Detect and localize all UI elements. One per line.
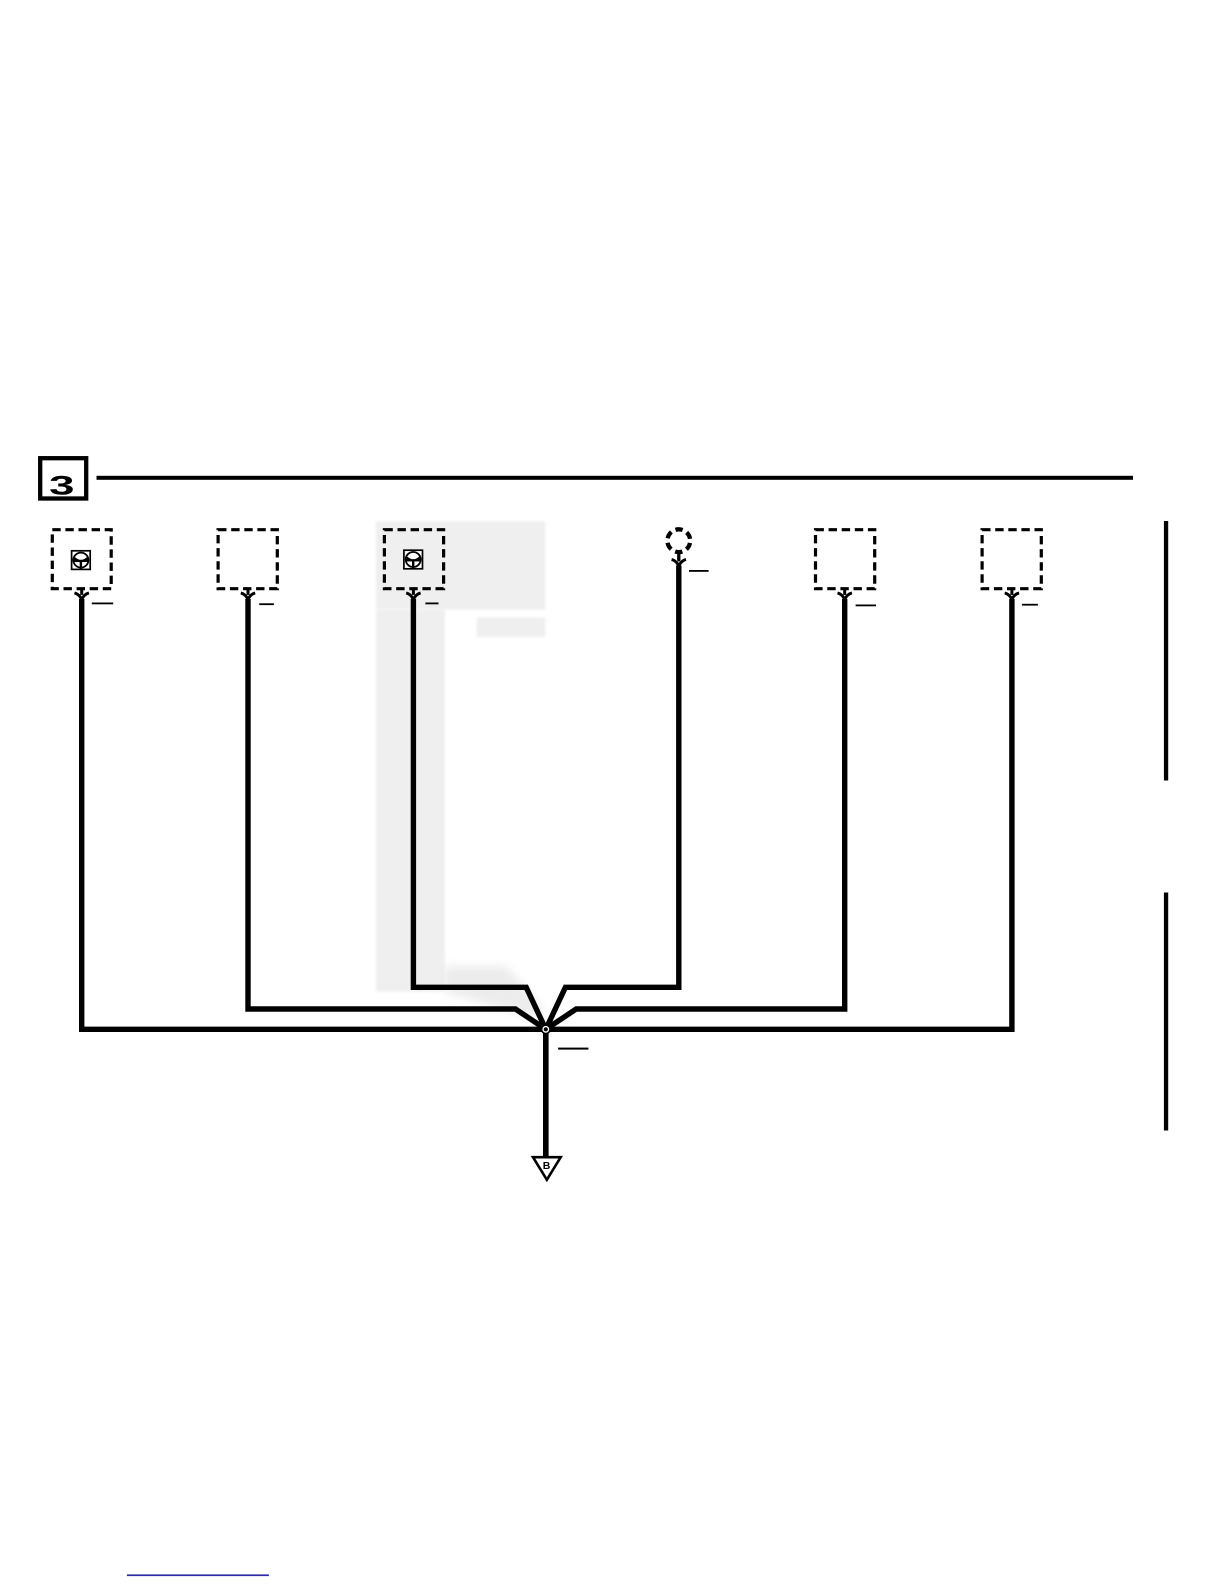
label dash L6 <box>1022 604 1038 606</box>
connector X6 dashed box <box>982 530 1041 589</box>
wire W2 stub arrow <box>241 590 255 600</box>
label dash L4 <box>689 570 709 572</box>
highlight strip <box>477 618 546 638</box>
wire W3 <box>413 599 545 1029</box>
svg-text:B: B <box>543 1160 551 1172</box>
wire W6 <box>546 599 1012 1029</box>
connector X5 dashed box <box>816 530 875 589</box>
svg-text:3: 3 <box>49 470 74 500</box>
label dash L1 <box>92 603 113 605</box>
footer link line <box>127 1574 269 1576</box>
wire W6 stub arrow <box>1005 590 1019 600</box>
bulb E3 <box>404 550 423 569</box>
right margin bar lower <box>1164 893 1168 1131</box>
ground wire <box>543 1029 549 1157</box>
label dash L2 <box>259 603 274 605</box>
wire W3 stub arrow <box>406 590 420 600</box>
header index box 3 <box>40 458 86 500</box>
connector X3 dashed box <box>384 530 443 589</box>
label dash at node <box>558 1048 588 1050</box>
junction node <box>541 1024 551 1034</box>
highlight elbow shadow <box>444 966 541 1020</box>
wire W5 stub arrow <box>838 590 852 600</box>
wire W4 <box>546 566 679 1030</box>
connector X2 dashed box <box>218 530 277 589</box>
label dash L5 <box>856 605 876 607</box>
label dash L3 <box>425 603 438 605</box>
connector X1 dashed box <box>52 530 111 589</box>
bulb E1 <box>72 551 91 570</box>
wire W4 stub arrow <box>677 553 680 560</box>
wire W1 <box>82 599 546 1029</box>
highlight band top <box>376 521 546 609</box>
header rule <box>97 476 1134 480</box>
highlight band column <box>376 610 445 992</box>
wire W2 <box>248 599 546 1029</box>
connector X4 dashed circle <box>667 529 690 552</box>
wire W5 <box>546 599 845 1029</box>
ground symbol B <box>533 1157 561 1180</box>
right margin bar upper <box>1164 521 1168 781</box>
wire W1 stub arrow <box>75 590 89 600</box>
